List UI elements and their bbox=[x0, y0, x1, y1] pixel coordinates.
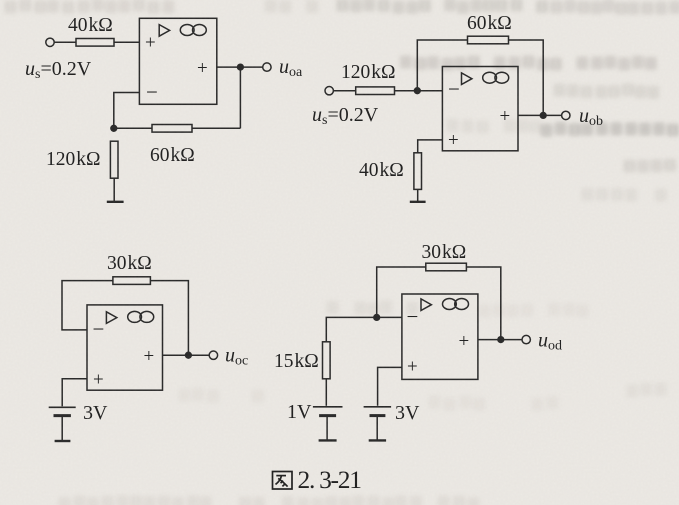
wire feedback right c bbox=[150, 281, 188, 356]
labels circuit d bbox=[274, 242, 562, 424]
resistor 30kΩ c bbox=[113, 277, 150, 285]
op-amp A1 triangle bbox=[159, 25, 169, 37]
wire feedback up d bbox=[377, 267, 426, 317]
node inverting d bbox=[374, 315, 380, 321]
battery 3V c long plate bbox=[49, 406, 76, 408]
battery 3V c short plate bbox=[54, 414, 71, 417]
resistor 60kΩ b bbox=[468, 36, 509, 44]
labels circuit a bbox=[25, 15, 303, 170]
input terminal b bbox=[325, 87, 333, 95]
op-amp A1 infinity bbox=[180, 25, 206, 36]
labels circuit c bbox=[83, 253, 248, 424]
resistor 40kΩ b bbox=[414, 153, 422, 190]
wire noninverting c bbox=[62, 379, 87, 407]
wire bbox=[54, 41, 76, 43]
ground c bbox=[55, 440, 71, 442]
wire feedback up b bbox=[417, 40, 467, 91]
wire noninverting b bbox=[418, 140, 443, 153]
resistor 30kΩ d bbox=[426, 263, 467, 271]
wire bbox=[395, 90, 443, 92]
wire feedback horizontal a bbox=[192, 127, 240, 129]
ground 3V d bbox=[369, 439, 386, 441]
wire output d bbox=[478, 339, 522, 341]
wire feedback right d bbox=[466, 267, 500, 340]
resistor 40kΩ bbox=[76, 39, 114, 47]
wire feedback vertical a bbox=[239, 67, 241, 128]
caption glyph 图 bbox=[273, 472, 293, 490]
op-amp A2 bbox=[442, 67, 518, 151]
wire bbox=[114, 41, 139, 43]
resistor 15kΩ d bbox=[323, 342, 331, 379]
wire bbox=[326, 417, 328, 441]
resistor 60kΩ bbox=[152, 125, 192, 133]
wire inverting d bbox=[326, 317, 402, 341]
node output b bbox=[540, 113, 546, 119]
node output a bbox=[238, 64, 244, 70]
resistor 120kΩ b bbox=[356, 87, 395, 95]
node inverting b bbox=[414, 88, 420, 94]
op-amp A2 triangle bbox=[462, 73, 472, 85]
output terminal d bbox=[522, 335, 530, 343]
node inverting a bbox=[111, 125, 117, 131]
wire bbox=[113, 178, 115, 202]
wire noninverting d bbox=[378, 367, 402, 405]
wire bbox=[376, 417, 378, 441]
op-amp A4 bbox=[402, 294, 478, 379]
op-amp A4 infinity bbox=[443, 299, 469, 310]
ground b bbox=[410, 201, 426, 203]
battery 1V short plate bbox=[319, 414, 336, 417]
op-amp A3 infinity bbox=[128, 311, 154, 322]
battery 3V d long plate bbox=[364, 406, 392, 408]
node output d bbox=[498, 337, 504, 343]
input terminal a bbox=[46, 38, 54, 46]
wire output a bbox=[217, 66, 263, 68]
node output c bbox=[186, 352, 192, 358]
battery 1V long plate bbox=[313, 406, 343, 408]
wire feedback right b bbox=[509, 40, 544, 115]
op-amp A3 triangle bbox=[106, 312, 116, 324]
wire bbox=[61, 417, 63, 441]
wire output b bbox=[518, 114, 562, 116]
op-amp A3 bbox=[87, 305, 163, 390]
op-amp A1 bbox=[139, 18, 216, 104]
wire to inverting input a bbox=[114, 93, 140, 129]
resistor 120kΩ bbox=[110, 141, 118, 178]
labels circuit b bbox=[312, 13, 603, 181]
wire bbox=[114, 127, 152, 129]
ground 1V d bbox=[319, 439, 337, 441]
ground a bbox=[107, 201, 124, 203]
wire output c bbox=[163, 354, 210, 356]
output terminal c bbox=[209, 351, 217, 359]
figure caption 图 2.3-21 bbox=[273, 465, 362, 494]
wire bbox=[333, 90, 355, 92]
op-amp A4 triangle bbox=[421, 299, 431, 311]
wire bbox=[325, 379, 327, 406]
output terminal b bbox=[562, 111, 570, 119]
output terminal a bbox=[263, 63, 271, 71]
wire bbox=[417, 189, 419, 201]
battery 3V d short plate bbox=[370, 414, 386, 417]
op-amp A2 infinity bbox=[483, 72, 509, 83]
wire inverting c bbox=[62, 281, 113, 330]
